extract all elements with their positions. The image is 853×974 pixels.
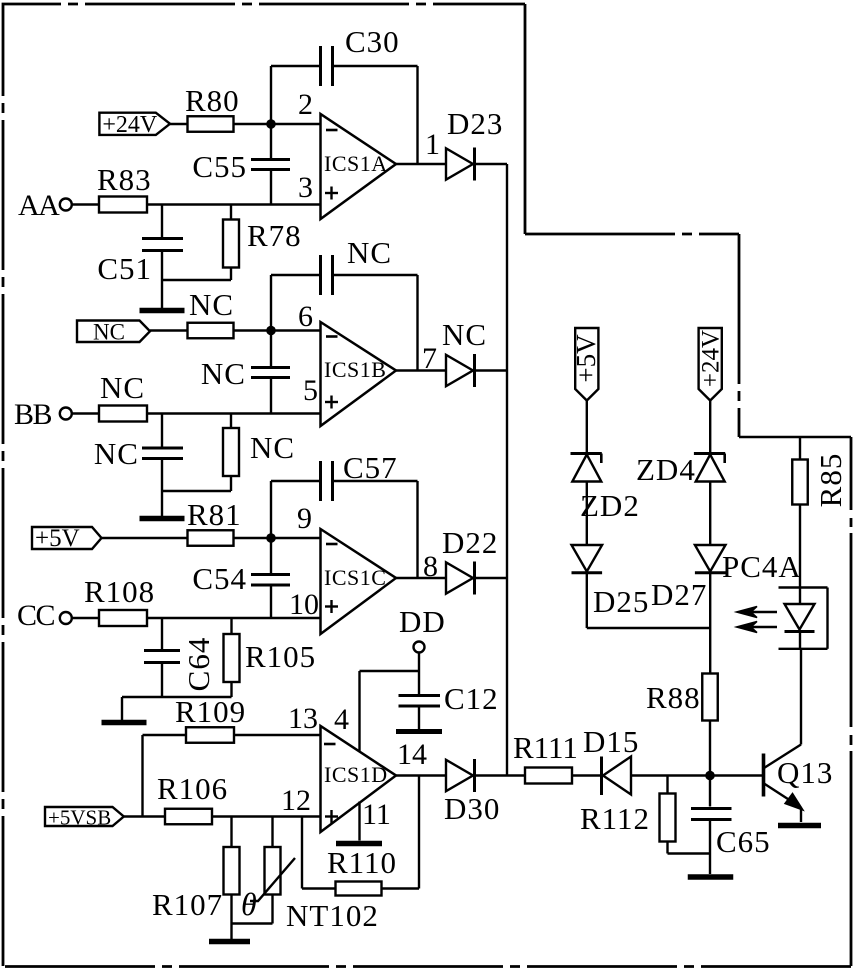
svg-text:10: 10 bbox=[289, 588, 319, 621]
svg-text:R106: R106 bbox=[157, 771, 228, 806]
svg-text:NC: NC bbox=[201, 356, 246, 391]
svg-text:CC: CC bbox=[17, 599, 55, 632]
svg-text:ZD2: ZD2 bbox=[580, 488, 640, 523]
svg-text:C30: C30 bbox=[345, 24, 400, 59]
svg-text:R85: R85 bbox=[813, 453, 848, 508]
svg-text:R105: R105 bbox=[245, 639, 316, 674]
svg-text:R107: R107 bbox=[152, 887, 223, 922]
svg-text:C51: C51 bbox=[97, 251, 152, 286]
svg-text:ICS1B: ICS1B bbox=[324, 357, 386, 382]
svg-text:R80: R80 bbox=[185, 83, 240, 118]
svg-text:PC4A: PC4A bbox=[722, 549, 802, 584]
svg-text:D22: D22 bbox=[442, 525, 498, 560]
svg-text:+5V: +5V bbox=[571, 334, 601, 383]
svg-text:+24V: +24V bbox=[102, 112, 158, 138]
svg-text:NT102: NT102 bbox=[286, 898, 379, 933]
svg-text:R88: R88 bbox=[646, 680, 701, 715]
svg-text:R78: R78 bbox=[247, 218, 302, 253]
svg-text:R110: R110 bbox=[327, 845, 397, 880]
svg-text:NC: NC bbox=[189, 287, 234, 322]
svg-text:DD: DD bbox=[399, 604, 446, 639]
svg-text:14: 14 bbox=[397, 738, 427, 771]
svg-text:C65: C65 bbox=[716, 824, 771, 859]
svg-text:6: 6 bbox=[298, 300, 313, 333]
svg-text:ICS1A: ICS1A bbox=[324, 151, 388, 176]
svg-text:BB: BB bbox=[14, 398, 52, 431]
svg-text:5: 5 bbox=[303, 374, 318, 407]
svg-text:NC: NC bbox=[347, 235, 392, 270]
svg-text:+5V: +5V bbox=[35, 525, 80, 552]
svg-text:12: 12 bbox=[281, 784, 311, 817]
svg-text:NC: NC bbox=[94, 436, 139, 471]
svg-text:ZD4: ZD4 bbox=[636, 452, 696, 487]
svg-text:3: 3 bbox=[298, 171, 313, 204]
svg-text:1: 1 bbox=[425, 128, 440, 161]
svg-text:Q13: Q13 bbox=[777, 755, 833, 790]
svg-text:C55: C55 bbox=[192, 149, 247, 184]
svg-text:NC: NC bbox=[250, 430, 295, 465]
svg-text:9: 9 bbox=[297, 502, 312, 535]
svg-text:C54: C54 bbox=[192, 561, 247, 596]
svg-text:NC: NC bbox=[93, 319, 125, 344]
svg-text:R83: R83 bbox=[97, 162, 152, 197]
svg-text:θ: θ bbox=[241, 886, 257, 922]
svg-text:13: 13 bbox=[288, 702, 318, 735]
svg-text:D23: D23 bbox=[447, 106, 503, 141]
svg-text:ICS1D: ICS1D bbox=[324, 762, 388, 787]
svg-text:4: 4 bbox=[334, 703, 349, 736]
svg-text:C12: C12 bbox=[444, 681, 499, 716]
svg-text:C64: C64 bbox=[181, 637, 216, 692]
svg-text:D27: D27 bbox=[651, 577, 707, 612]
svg-text:NC: NC bbox=[100, 370, 145, 405]
svg-text:ICS1C: ICS1C bbox=[324, 565, 386, 590]
svg-text:C57: C57 bbox=[343, 450, 398, 485]
svg-text:11: 11 bbox=[362, 798, 391, 831]
svg-text:+24V: +24V bbox=[697, 330, 724, 387]
svg-text:R111: R111 bbox=[513, 730, 578, 765]
svg-text:AA: AA bbox=[18, 189, 60, 222]
svg-text:R109: R109 bbox=[175, 694, 246, 729]
svg-text:D25: D25 bbox=[593, 584, 649, 619]
svg-text:D15: D15 bbox=[583, 724, 639, 759]
svg-text:NC: NC bbox=[442, 317, 487, 352]
svg-text:2: 2 bbox=[298, 88, 313, 121]
svg-text:R81: R81 bbox=[187, 497, 242, 532]
svg-text:R108: R108 bbox=[84, 574, 155, 609]
svg-text:R112: R112 bbox=[580, 801, 650, 836]
svg-text:D30: D30 bbox=[444, 791, 500, 826]
svg-text:+5VSB: +5VSB bbox=[48, 806, 111, 830]
